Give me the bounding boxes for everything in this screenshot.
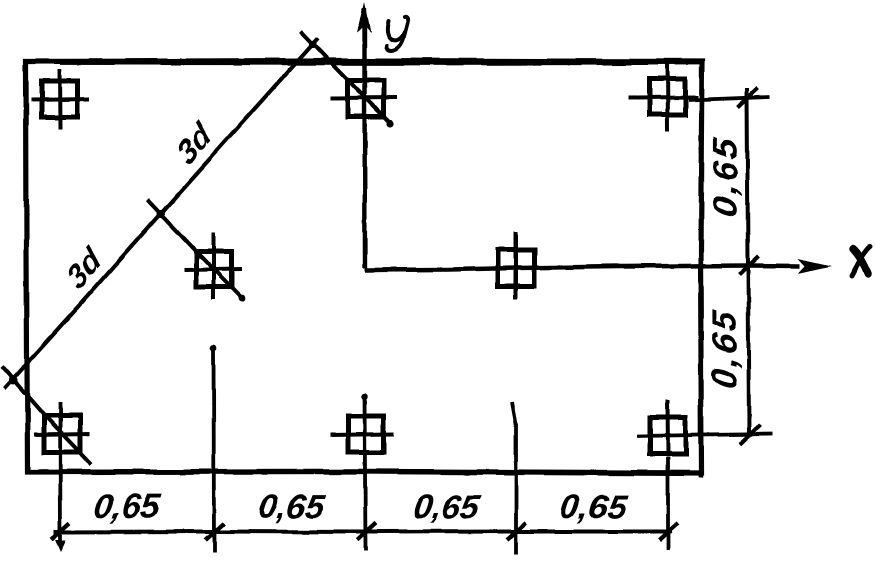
- y axis line: [362, 8, 367, 268]
- x axis line: [365, 266, 800, 271]
- dimension tick at x=668: [659, 523, 678, 540]
- right dimension line: [747, 88, 749, 437]
- pile P8 vertical centerline: [666, 400, 671, 456]
- pile P1 top-left square: [42, 81, 78, 117]
- pile P7 bottom-middle square: [348, 416, 384, 452]
- pile P1 vertical centerline: [58, 69, 63, 129]
- dimension tick at y=435: [740, 425, 760, 444]
- dimension tick at x=214: [205, 523, 224, 540]
- extension line below pile P7: [365, 395, 366, 550]
- pile P3 top-right square: [649, 79, 685, 115]
- pile P1 horizontal centerline: [31, 99, 89, 100]
- outline right edge corner overshoot: [698, 472, 703, 478]
- perpendicular offset line through pile P4: [148, 200, 243, 299]
- pile P8 bottom-right square: [650, 418, 686, 454]
- pile P2 top-middle square: [348, 81, 384, 117]
- pile P3 horizontal centerline: [628, 96, 698, 101]
- pile cap outline rectangle: [26, 61, 702, 474]
- outline top edge overlay: [60, 61, 700, 65]
- dimension tick at x=60: [51, 523, 70, 540]
- dimension tick at x=516: [507, 523, 526, 540]
- pile P3 vertical centerline: [665, 59, 670, 132]
- extension line below pile P8: [666, 457, 670, 549]
- knob at top of P4 extension: [210, 345, 217, 352]
- pile P6 horizontal centerline: [34, 434, 90, 435]
- svg-text:0,65: 0,65: [706, 134, 745, 220]
- svg-text:0,65: 0,65: [705, 306, 744, 392]
- dimension tick at y=266: [739, 256, 759, 275]
- perpendicular offset line through pile P6: [2, 367, 91, 464]
- ink blob at top X crossing: [309, 40, 316, 47]
- extension line right of pile P3: [688, 97, 770, 100]
- pile P4 horizontal centerline: [184, 269, 242, 270]
- pile P7 horizontal centerline: [330, 434, 394, 435]
- svg-text:3d: 3d: [60, 239, 108, 296]
- extension line below pile P5: [512, 402, 516, 554]
- bottom dimension line: [54, 530, 672, 535]
- blob at end of perpendicular through P4: [239, 295, 246, 302]
- pile P4 vertical centerline: [212, 233, 216, 300]
- ink blob at lower X crossing: [9, 376, 18, 385]
- ink blob at middle X crossing: [157, 210, 165, 218]
- y axis label: [386, 17, 408, 50]
- extension line below pile P4: [212, 345, 216, 553]
- blob at top of P7 extension: [361, 394, 367, 400]
- svg-text:3d: 3d: [170, 114, 218, 171]
- svg-text:0,65: 0,65: [256, 488, 328, 526]
- pile P5 middle-right square: [498, 250, 534, 286]
- pile P2 vertical centerline below square: [363, 119, 368, 134]
- x axis label: [852, 247, 871, 276]
- perpendicular offset line through pile P2: [301, 31, 391, 124]
- svg-text:0,65: 0,65: [558, 488, 630, 526]
- outline bottom edge overlay: [40, 470, 690, 472]
- pile P4 middle-left square: [196, 251, 232, 287]
- dimension tick at x=366: [357, 523, 376, 540]
- extension line right of pile P8: [637, 434, 772, 436]
- x axis arrowhead: [798, 259, 832, 274]
- pile P6 bottom-left square: [44, 416, 80, 452]
- svg-text:0,65: 0,65: [411, 488, 483, 526]
- svg-text:0,65: 0,65: [91, 488, 163, 526]
- dimension tick at y=97: [738, 88, 758, 107]
- 3d spacing line (main diagonal): [4, 38, 318, 389]
- arrow blob at end of P6 extension: [55, 540, 66, 552]
- blob at end of perpendicular through P2: [386, 120, 393, 127]
- extension line below pile P6: [58, 402, 62, 543]
- y axis arrowhead: [358, 2, 372, 33]
- pile P5 vertical centerline: [514, 232, 518, 299]
- pile P2 horizontal centerline: [330, 96, 397, 101]
